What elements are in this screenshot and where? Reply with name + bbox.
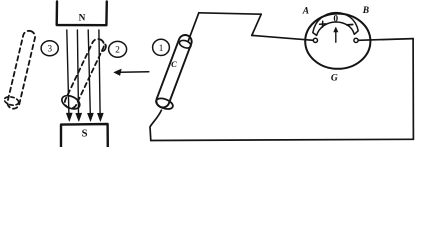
coil position 3 dashed tube (3, 29, 37, 110)
scale minus sign (347, 24, 353, 26)
svg-text:N: N (79, 13, 86, 23)
galvanometer scale band (313, 13, 358, 36)
label circle 1 (153, 39, 170, 55)
wire left riser to coil bottom (150, 110, 161, 140)
scale plus sign (320, 21, 326, 27)
svg-text:G: G (331, 74, 338, 84)
magnet N pole (57, 2, 107, 26)
svg-text:S: S (82, 129, 88, 140)
wire bottom rail (151, 139, 414, 140)
field line 1 (66, 30, 72, 121)
label circle 2 (109, 41, 127, 57)
svg-text:A: A (302, 7, 309, 17)
label circle 3 (41, 41, 58, 56)
field line 2 (76, 30, 82, 121)
coil C cylinder (154, 33, 198, 111)
wire kink (252, 14, 261, 35)
coil position 2 dashed tube (60, 36, 110, 112)
needle (334, 27, 338, 42)
galvanometer G body (305, 14, 370, 69)
svg-text:B: B (362, 6, 369, 16)
wire to galvanometer terminal A (252, 35, 313, 40)
svg-text:3: 3 (48, 44, 53, 54)
svg-text:2: 2 (115, 45, 120, 55)
svg-text:1: 1 (159, 43, 164, 53)
motion arrow pointing left (114, 69, 149, 75)
magnet S pole (61, 124, 108, 147)
field line 3 (88, 30, 94, 121)
wire from terminal B to right side (358, 39, 413, 41)
svg-text:C: C (171, 59, 177, 69)
terminal A dot (313, 38, 317, 42)
wire right vertical (412, 39, 414, 140)
field line 4 (97, 30, 103, 121)
wire from coil top to top rail (188, 13, 199, 41)
wire top rail (199, 13, 261, 14)
terminal B dot (354, 38, 358, 42)
svg-text:0: 0 (333, 15, 338, 25)
